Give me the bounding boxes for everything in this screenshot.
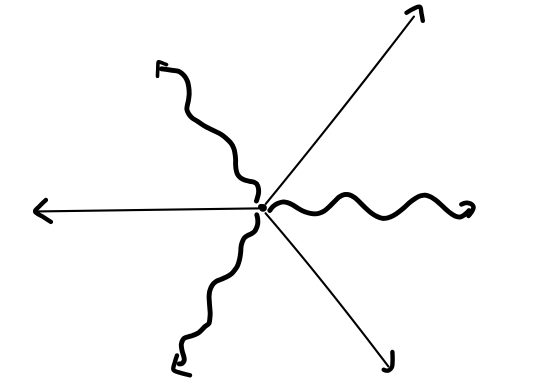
arrowhead lower left — [173, 356, 190, 376]
arrowhead left — [35, 200, 51, 222]
arrowhead upper right — [407, 7, 423, 21]
arrowhead right curl — [461, 203, 473, 216]
vertex dot — [258, 204, 267, 212]
wire: straight arrow shaft to left — [38, 208, 259, 211]
wire: straight arrow shaft to lower right — [266, 213, 389, 366]
wire: straight arrow shaft to upper right — [266, 17, 414, 204]
arrowhead lower right — [384, 352, 393, 371]
wavy line to upper left — [162, 69, 259, 201]
arrow hook upper left — [158, 62, 167, 76]
wavy line to right — [270, 194, 469, 218]
wavy line to lower left — [179, 215, 258, 364]
